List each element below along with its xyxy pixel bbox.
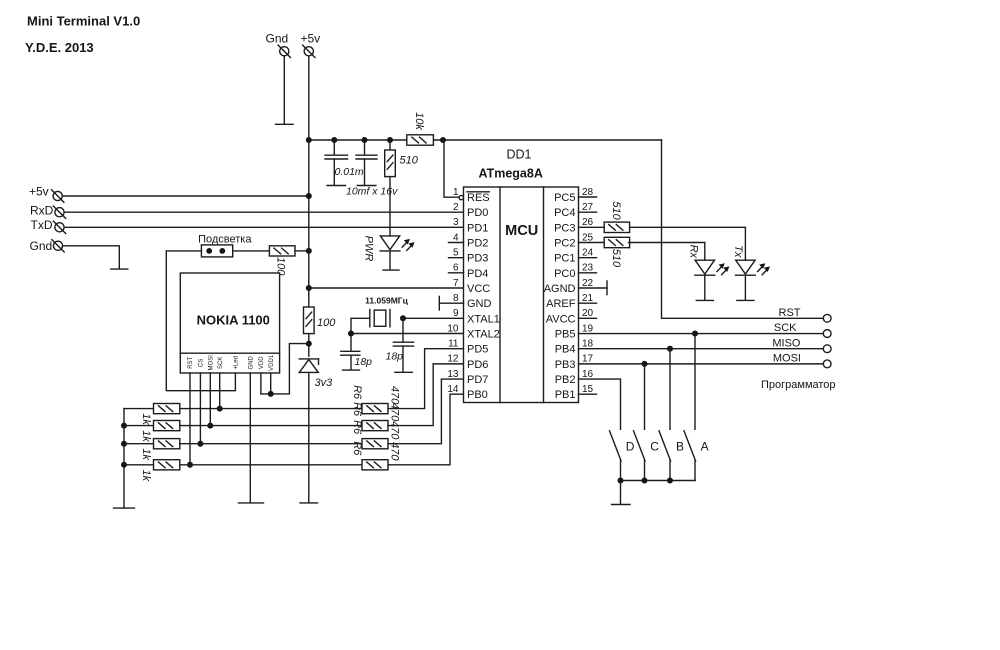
pin 15 stub <box>579 393 597 395</box>
svg-text:DD1: DD1 <box>507 148 532 162</box>
wire row4 middle <box>180 464 362 466</box>
wire MOSI (pin 17 PB3) <box>579 363 824 365</box>
svg-text:SCK: SCK <box>774 322 797 334</box>
svg-text:28: 28 <box>582 187 594 198</box>
resistor 1k (row2) <box>154 421 180 431</box>
switch button B <box>659 431 671 461</box>
svg-text:510: 510 <box>610 249 622 268</box>
wire backlight to resistor 100 <box>233 250 270 252</box>
svg-text:Y.D.E. 2013: Y.D.E. 2013 <box>25 40 94 55</box>
svg-text:9: 9 <box>453 308 459 319</box>
node junction RES net <box>440 137 446 143</box>
wire crystal left to XTAL2 <box>351 318 370 333</box>
wire Tx LED cathode <box>744 275 746 299</box>
svg-text:B: B <box>676 439 684 453</box>
svg-text:GND: GND <box>248 355 254 369</box>
wire button A drop <box>694 334 696 430</box>
overline for RES <box>467 191 489 193</box>
svg-text:PC2: PC2 <box>554 238 575 250</box>
MCU U1 ATmega8A body <box>464 187 579 403</box>
wire XTAL1 (pin9) <box>403 317 464 319</box>
wire +5v terminal stem <box>308 56 310 140</box>
wire button B drop <box>669 349 671 430</box>
svg-text:18p: 18p <box>355 356 373 368</box>
wire row1 left <box>124 408 154 410</box>
wire GND pin 8 <box>439 302 463 304</box>
node junction backlight / +5v rail <box>306 248 312 254</box>
wire +5v rail (y=140) <box>309 139 407 141</box>
svg-text:26: 26 <box>582 217 594 228</box>
svg-text:11.059МГц: 11.059МГц <box>365 296 408 306</box>
wire NOKIA MOSI down <box>209 373 211 426</box>
svg-text:20: 20 <box>582 308 594 319</box>
wire VDD net to zener node <box>261 344 309 394</box>
svg-text:Mini Terminal V1.0: Mini Terminal V1.0 <box>27 14 140 29</box>
svg-text:12: 12 <box>447 354 459 365</box>
svg-text:PC5: PC5 <box>554 192 575 204</box>
wire ground rail (left of 1k resistors) <box>123 409 125 508</box>
wire RxD to MCU pin 2 <box>64 211 463 213</box>
svg-text:14: 14 <box>447 384 459 395</box>
svg-text:RST: RST <box>188 356 194 368</box>
svg-text:8: 8 <box>453 293 459 304</box>
terminal TxD <box>55 223 64 232</box>
LED PWR <box>380 236 399 250</box>
resistor 100 (LCD supply) <box>304 307 315 334</box>
svg-text:AGND: AGND <box>544 283 576 295</box>
svg-text:13: 13 <box>447 369 459 380</box>
ground bar (pin 8 GND) <box>438 296 440 310</box>
svg-text:470: 470 <box>388 442 400 461</box>
terminal RxD <box>55 208 64 217</box>
svg-text:+5v: +5v <box>29 184 49 198</box>
svg-text:GND: GND <box>467 298 492 310</box>
svg-text:MCU: MCU <box>505 223 538 239</box>
svg-text:2: 2 <box>453 202 459 213</box>
svg-text:PD0: PD0 <box>467 207 488 219</box>
capacitor 0.01m <box>333 140 335 155</box>
wire backlight to +Led pin <box>166 251 235 391</box>
wire pin 26 PC3 to 510 <box>579 226 605 228</box>
svg-text:VDD: VDD <box>259 356 265 369</box>
pin 28 stub <box>579 196 597 198</box>
svg-text:24: 24 <box>582 247 594 258</box>
svg-text:17: 17 <box>582 354 594 365</box>
wire NOKIA SCK down <box>219 373 221 409</box>
wire row2 left <box>124 425 154 427</box>
wire 510 to PWR LED <box>389 177 391 236</box>
svg-text:SCK: SCK <box>218 357 224 369</box>
wire row1 to MCU pin 11 <box>388 349 464 409</box>
wire resistor 100 to +5v rail <box>295 250 309 252</box>
svg-text:100: 100 <box>317 317 336 329</box>
display module NOKIA 1100 <box>180 273 279 373</box>
svg-text:PB3: PB3 <box>555 359 576 371</box>
wire pin 25 PC2 to 510 <box>579 242 605 244</box>
svg-text:AREF: AREF <box>546 298 576 310</box>
svg-text:NOKIA 1100: NOKIA 1100 <box>197 313 270 328</box>
node junction VCC pin 7 <box>306 285 312 291</box>
svg-text:PWR: PWR <box>362 236 374 262</box>
svg-text:RES: RES <box>467 192 490 204</box>
wire zener to ground <box>308 372 310 502</box>
wire NOKIA VDD down <box>260 373 262 394</box>
node junction XTAL2 / C18p <box>348 331 354 337</box>
wire row2 to MCU pin 12 <box>388 364 464 426</box>
connector Подсветка <box>201 245 232 257</box>
svg-text:MISO: MISO <box>772 337 801 349</box>
resistor 1k (row1) <box>154 404 180 414</box>
svg-text:4: 4 <box>453 232 459 243</box>
wire resistor 100 to zener <box>308 334 310 357</box>
svg-text:10: 10 <box>447 323 459 334</box>
wire NOKIA CS down <box>199 373 201 444</box>
wire 510 to Tx LED <box>630 227 746 260</box>
wire row3 middle <box>180 443 362 445</box>
svg-text:VCC: VCC <box>467 283 490 295</box>
pin 5 stub <box>449 257 464 259</box>
svg-text:R6: R6 <box>351 385 363 400</box>
ground (PWR LED) <box>383 269 399 271</box>
svg-text:MOSI: MOSI <box>773 353 801 365</box>
svg-text:PD6: PD6 <box>467 359 488 371</box>
inversion bubble pin 1 <box>459 195 463 199</box>
wire +5v from terminal to rail <box>62 195 308 197</box>
node junction +5v wire / vertical rail <box>306 193 312 199</box>
svg-text:PD1: PD1 <box>467 222 488 234</box>
LED Tx <box>736 260 755 274</box>
svg-text:Gnd: Gnd <box>266 32 289 46</box>
svg-text:Подсветка: Подсветка <box>198 234 252 246</box>
svg-text:0.01m: 0.01m <box>335 166 364 178</box>
wire button C drop <box>644 364 646 429</box>
svg-text:25: 25 <box>582 232 594 243</box>
svg-text:XTAL2: XTAL2 <box>467 329 500 341</box>
svg-text:22: 22 <box>582 278 594 289</box>
svg-text:D: D <box>626 439 635 453</box>
wire VCC to MCU pin 7 <box>309 287 464 289</box>
wire button common rail <box>621 480 696 482</box>
resistor 100 (backlight) <box>269 246 295 256</box>
ground (left Gnd terminal) <box>111 268 128 270</box>
node junction resistor 510 PWR <box>387 137 393 143</box>
ground (cap 10mf) <box>357 185 376 187</box>
svg-text:7: 7 <box>453 278 459 289</box>
pin 23 stub <box>579 272 597 274</box>
svg-text:RST: RST <box>779 307 801 319</box>
LED Rx <box>695 260 714 274</box>
svg-text:27: 27 <box>582 202 594 213</box>
svg-text:PB0: PB0 <box>467 389 488 401</box>
wire rail after 10k to RST drop <box>434 139 662 141</box>
resistor R6 470 (row4) <box>362 460 388 470</box>
wire AGND pin 22 <box>579 287 608 289</box>
svg-text:C: C <box>650 439 659 453</box>
wire Gnd terminal stem <box>283 56 285 123</box>
svg-text:R6: R6 <box>351 420 363 435</box>
svg-text:16: 16 <box>582 369 594 380</box>
ground (top Gnd terminal) <box>276 123 294 125</box>
pin 4 stub <box>449 242 464 244</box>
wire row3 to MCU pin 13 <box>388 379 464 444</box>
svg-text:PD5: PD5 <box>467 344 488 356</box>
svg-text:CS: CS <box>199 359 205 367</box>
svg-text:MOSI: MOSI <box>208 355 214 371</box>
svg-text:PC0: PC0 <box>554 268 575 280</box>
switch button C <box>634 431 646 461</box>
resistor 1k (row4) <box>154 460 180 470</box>
svg-text:ATmega8A: ATmega8A <box>479 167 543 181</box>
svg-text:1k: 1k <box>140 430 152 442</box>
wire row4 left <box>124 464 154 466</box>
resistor 10k <box>407 135 434 145</box>
svg-text:1: 1 <box>453 187 459 198</box>
svg-text:15: 15 <box>582 384 594 395</box>
ground (buttons) <box>612 504 631 506</box>
svg-text:PB2: PB2 <box>555 374 576 386</box>
svg-text:+Led: +Led <box>234 356 240 370</box>
svg-text:Rx: Rx <box>688 245 700 259</box>
svg-text:Tx: Tx <box>732 245 744 258</box>
terminal Gnd (top) <box>280 47 289 56</box>
svg-text:470: 470 <box>388 403 400 422</box>
resistor 510 (Rx) <box>604 237 629 247</box>
node junction cap C2 <box>362 137 368 143</box>
svg-text:A: A <box>701 439 709 453</box>
svg-text:1k: 1k <box>140 448 152 460</box>
capacitor 18p (right) <box>402 318 404 341</box>
svg-text:23: 23 <box>582 263 594 274</box>
ground (NOKIA GND) <box>239 502 264 504</box>
resistor R6 470 (row2) <box>362 421 388 431</box>
svg-text:PD2: PD2 <box>467 238 488 250</box>
node junction VDD1 <box>268 391 274 397</box>
ground (1k rail) <box>114 507 135 509</box>
pin 6 stub <box>449 272 464 274</box>
wire row3 left <box>124 443 154 445</box>
svg-text:510: 510 <box>610 201 622 220</box>
ground (zener branch) <box>300 502 318 504</box>
wire row1 middle <box>180 408 362 410</box>
svg-text:3v3: 3v3 <box>315 377 334 389</box>
svg-text:18p: 18p <box>386 350 404 362</box>
svg-text:1k: 1k <box>140 469 152 481</box>
svg-text:TxD: TxD <box>31 218 53 232</box>
svg-text:19: 19 <box>582 323 594 334</box>
terminal Gnd (left) <box>53 241 62 250</box>
svg-text:1k: 1k <box>140 413 152 425</box>
resistor 1k (row3) <box>154 439 180 449</box>
node junction SCK / button A <box>692 331 698 337</box>
node junction +5v rail / vertical rail <box>306 137 312 143</box>
svg-text:PC3: PC3 <box>554 222 575 234</box>
svg-text:6: 6 <box>453 263 459 274</box>
node junction CS/row3 <box>197 441 203 447</box>
svg-text:3: 3 <box>453 217 459 228</box>
node junction MOSI/row2 <box>207 423 213 429</box>
wire pin 16 PB2 to button D <box>579 379 621 429</box>
svg-text:PB5: PB5 <box>555 329 576 341</box>
wire TxD to MCU pin 3 <box>64 226 463 228</box>
svg-text:PB4: PB4 <box>555 344 576 356</box>
switch button D <box>610 431 622 461</box>
svg-text:18: 18 <box>582 339 594 350</box>
wire Gnd terminal <box>63 246 120 268</box>
pin 24 stub <box>579 257 597 259</box>
svg-text:RxD: RxD <box>30 203 54 217</box>
crystal Q1 <box>369 310 371 327</box>
ground (Tx LED) <box>737 299 754 301</box>
terminal RST <box>823 314 831 322</box>
wire XTAL2 (pin10) <box>351 333 464 335</box>
svg-text:Gnd: Gnd <box>30 239 53 253</box>
svg-text:XTAL1: XTAL1 <box>467 313 500 325</box>
node junction RST/row4 <box>187 462 193 468</box>
node junction MISO / button B <box>667 346 673 352</box>
ground (18p left) <box>343 369 360 371</box>
wire Rx LED cathode <box>704 275 706 299</box>
wire row4 to MCU pin 14 <box>388 394 464 465</box>
wire NOKIA RST down <box>189 373 191 465</box>
ground bar (pin 22 AGND) <box>606 281 608 295</box>
node junction zener / VDD net <box>306 341 312 347</box>
svg-text:R6: R6 <box>351 402 363 417</box>
wire buttons to ground <box>620 481 622 504</box>
svg-text:PD4: PD4 <box>467 268 488 280</box>
svg-text:11: 11 <box>448 339 459 350</box>
wire NOKIA GND down <box>249 373 251 502</box>
svg-text:R6: R6 <box>351 441 363 456</box>
svg-text:PD7: PD7 <box>467 374 488 386</box>
terminal +5v (top) <box>304 47 313 56</box>
zener diode 3v3 <box>299 358 318 360</box>
svg-text:PD3: PD3 <box>467 253 488 265</box>
node junction MOSI / button C <box>642 361 648 367</box>
resistor 510 (Tx) <box>604 222 629 232</box>
wire NOKIA VDD1 down <box>270 373 272 394</box>
svg-text:510: 510 <box>400 155 419 167</box>
pin 20 stub <box>579 317 597 319</box>
wire RES net down to RST <box>662 140 824 318</box>
svg-text:PC1: PC1 <box>554 253 575 265</box>
resistor 510 (PWR) <box>389 140 391 150</box>
terminal SCK <box>823 330 831 338</box>
svg-text:5: 5 <box>453 247 459 258</box>
resistor R6 470 (row1) <box>362 404 388 414</box>
node junction cap C1 <box>331 137 337 143</box>
svg-text:Программатор: Программатор <box>761 379 836 391</box>
svg-text:PC4: PC4 <box>554 207 575 219</box>
ground (18p right) <box>395 371 413 373</box>
node junction XTAL1 / C18p <box>400 315 406 321</box>
terminal +5v (left) <box>53 191 62 200</box>
wire PWR LED cathode <box>389 251 391 269</box>
wire MISO (pin 18 PB4) <box>579 348 824 350</box>
terminal MISO <box>823 345 831 353</box>
pin 27 stub <box>579 211 597 213</box>
ground (cap 0.01m) <box>327 185 346 187</box>
resistor R6 470 (row3) <box>362 439 388 449</box>
capacitor 18p (left) <box>350 334 352 351</box>
pin 21 stub <box>579 302 597 304</box>
svg-text:10k: 10k <box>413 112 425 130</box>
wire 510 to Rx LED <box>629 243 705 261</box>
node junction SCK/row1 <box>217 406 223 412</box>
wire +5v vertical rail <box>308 140 310 307</box>
svg-text:PB1: PB1 <box>555 389 576 401</box>
wire SCK (pin 19 PB5) <box>579 333 824 335</box>
wire RES net from 10k to pin 1 <box>444 140 459 197</box>
ground (Rx LED) <box>696 299 713 301</box>
wire row2 middle <box>180 425 362 427</box>
svg-text:470: 470 <box>388 421 400 440</box>
capacitor 10mf x 16v <box>364 140 366 155</box>
svg-text:21: 21 <box>582 293 594 304</box>
switch button A <box>684 431 696 461</box>
svg-text:VDD1: VDD1 <box>269 354 275 371</box>
svg-text:+5v: +5v <box>301 32 321 46</box>
terminal MOSI <box>823 360 831 368</box>
svg-text:AVCC: AVCC <box>546 313 576 325</box>
